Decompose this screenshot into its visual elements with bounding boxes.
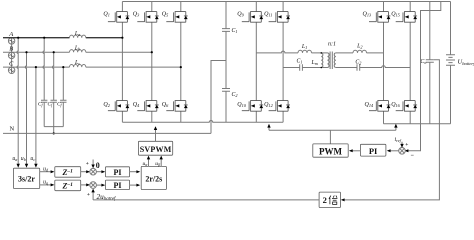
svg-text:uq: uq (43, 180, 48, 186)
transistor Q14 (369, 101, 390, 112)
svg-text:Lb: Lb (74, 45, 80, 51)
wire gate drive line PWM (269, 126, 396, 144)
svg-text:C1: C1 (232, 28, 238, 34)
wire bridge1 leg A (121, 2, 123, 123)
summing junction q-axis (90, 182, 97, 189)
svg-text:2: 2 (323, 195, 327, 205)
wire output voltage sense (405, 2, 441, 151)
wire output bridge bottom bus (384, 123, 451, 125)
svg-text:uc: uc (30, 156, 35, 162)
svg-text:2r/2s: 2r/2s (145, 175, 162, 184)
block PWM (313, 144, 348, 157)
inductor Lm magnetizing (321, 53, 323, 68)
transistor Q11 (269, 12, 290, 23)
svg-text:Q6: Q6 (162, 102, 169, 108)
wire PI1 to 2r/2s (130, 171, 139, 173)
wire bridge1 leg C (180, 2, 182, 123)
inductor Lr1 (298, 50, 312, 53)
block 3s/2r (13, 168, 39, 188)
svg-text:ub: ub (21, 156, 26, 162)
svg-text:Q15: Q15 (391, 12, 400, 18)
svg-text:Lm: Lm (311, 60, 318, 66)
svg-text:ua: ua (12, 156, 17, 162)
transistor Q3 (137, 12, 158, 23)
svg-text:iref: iref (395, 137, 402, 143)
transformer T1 n:1 (328, 53, 330, 68)
block 2r/2s (141, 166, 166, 189)
wire junction to PI (388, 150, 399, 152)
transistor Q10 (242, 101, 263, 112)
wire output bridge leg2 (409, 2, 411, 124)
block 2x gain (319, 192, 340, 208)
svg-text:Q2: Q2 (103, 102, 110, 108)
wire resonant tank bottom (283, 66, 410, 68)
svg-text:L2: L2 (356, 43, 362, 49)
svg-text:Q10: Q10 (237, 102, 246, 108)
block PI q-axis (105, 180, 129, 190)
wire filter cap common bus (44, 127, 63, 134)
svg-text:PI: PI (114, 168, 122, 177)
block PI right (360, 144, 386, 156)
svg-text:0: 0 (96, 161, 100, 170)
svg-text:SVPWM: SVPWM (140, 145, 172, 154)
capacitor C1 DC link (222, 29, 230, 32)
wire bridge1 bottom bus (122, 121, 283, 123)
inductor La (70, 35, 86, 38)
block PI d-axis (105, 167, 129, 177)
capacitor Cr1 series (300, 64, 303, 70)
wire neutral N line (3, 132, 211, 134)
capacitor Cf phase A (41, 100, 47, 126)
svg-text:La: La (74, 31, 80, 37)
svg-text:PI: PI (114, 181, 122, 190)
svg-text:PI: PI (369, 146, 378, 156)
wire ud (40, 171, 54, 173)
svg-text:C2: C2 (232, 92, 238, 98)
summing junction d-axis (90, 168, 97, 175)
AC source phase C (8, 67, 14, 73)
arrow SVPWM gate drive (155, 127, 157, 141)
svg-text:C: C (9, 61, 14, 68)
svg-text:C2: C2 (355, 59, 361, 65)
block Z-1 top (55, 167, 81, 178)
wire resonant tank top (256, 51, 383, 53)
wire measurement tap ua (17, 38, 18, 167)
svg-text:PWM: PWM (319, 146, 342, 156)
svg-text:3s/2r: 3s/2r (18, 175, 35, 184)
capacitor Co output filter (426, 2, 434, 124)
svg-text:Q3: Q3 (133, 12, 140, 18)
svg-text:+: + (86, 161, 89, 167)
wire filter cap tap A (43, 38, 44, 101)
block SVPWM (138, 141, 172, 155)
svg-text:Q9: Q9 (237, 12, 244, 18)
svg-text:Q4: Q4 (133, 102, 140, 108)
transistor Q12 (269, 101, 290, 112)
wire phase B (3, 51, 152, 53)
transistor Q15 (396, 12, 417, 23)
arrows into 3s/2r (17, 164, 20, 168)
svg-text:n:1: n:1 (328, 42, 336, 48)
inductor Lc (70, 65, 86, 68)
capacitor Cf phase C (60, 100, 66, 126)
svg-text:L1: L1 (301, 44, 307, 50)
svg-text:Q11: Q11 (264, 12, 272, 18)
transistor Q6 (166, 101, 187, 112)
wire top DC bus (122, 1, 450, 3)
svg-text:Lc: Lc (74, 60, 80, 66)
svg-text:uβ: uβ (155, 161, 160, 167)
AC source phase B (8, 52, 14, 58)
transistor Q5 (166, 12, 187, 23)
battery Ubattery (450, 2, 452, 124)
transistor Q13 (369, 12, 390, 23)
wire sum1 to PI1 (96, 171, 104, 173)
svg-text:N: N (10, 126, 15, 133)
wire filter cap tap B (52, 52, 53, 100)
wire phase C (3, 66, 181, 68)
svg-text:B: B (9, 46, 13, 53)
svg-text:+: + (405, 142, 408, 148)
capacitor C2 DC link (222, 89, 230, 92)
transistor Q4 (137, 101, 158, 112)
wire Z2 to sum2 (81, 184, 89, 186)
wire measurement tap uc (35, 67, 37, 166)
block Z-1 bottom (55, 180, 81, 191)
wire voltage sense to 2x block (342, 60, 439, 200)
AC source phase A (8, 38, 14, 44)
wire uq (40, 184, 54, 186)
svg-text:+: + (87, 192, 90, 198)
capacitor Cr2 series (357, 64, 360, 70)
svg-text:C1: C1 (297, 59, 303, 65)
wire measurement tap ub (25, 52, 26, 166)
wire DC-link bus (225, 2, 227, 123)
svg-text:−: − (411, 153, 415, 159)
transistor Q16 (396, 101, 417, 112)
wire DC-link midpoint to neutral (211, 61, 226, 134)
wire 2x output to q-sum (93, 199, 319, 201)
wire ualpha to SVPWM (148, 157, 150, 167)
transistor Q9 (242, 12, 263, 23)
svg-text:Q5: Q5 (162, 12, 169, 18)
wire output bridge leg1 (383, 2, 385, 124)
wire bridge1 leg B (151, 2, 153, 123)
capacitor Cf phase B (51, 100, 57, 126)
wire sum2 to PI2 (96, 184, 104, 186)
wire filter cap tap C (62, 67, 64, 100)
wire phase A (3, 37, 122, 39)
svg-text:Q13: Q13 (363, 12, 372, 18)
svg-text:Q1: Q1 (103, 12, 110, 18)
wire PI to PWM (350, 150, 360, 152)
wire ubeta to SVPWM (160, 157, 162, 167)
wire PI2 to 2r/2s (130, 184, 139, 186)
inductor Lb (70, 50, 86, 53)
wire source column (11, 38, 13, 74)
svg-text:Q16: Q16 (391, 102, 400, 108)
svg-text:Co: Co (420, 59, 426, 65)
inductor Lr2 (353, 50, 367, 53)
svg-text:Q14: Q14 (365, 102, 374, 108)
transistor Q2 (108, 101, 129, 112)
wire bridge2 leg2 (282, 2, 284, 123)
svg-text:Q12: Q12 (264, 102, 273, 108)
wire Z1 to sum1 (81, 171, 89, 173)
summing junction output current (399, 148, 406, 155)
wire bridge2 leg1 (255, 2, 257, 123)
transistor Q1 (108, 12, 129, 23)
